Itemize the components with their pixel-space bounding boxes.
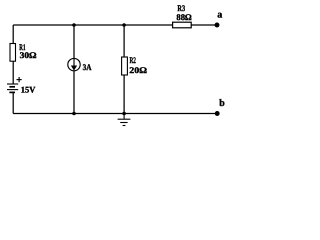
svg-text:88Ω: 88Ω — [176, 12, 192, 22]
wire top rail right of R3 — [191, 24, 217, 26]
wire left branch middle — [12, 61, 14, 84]
resistor R1 — [10, 44, 16, 62]
resistor R2 — [122, 57, 128, 75]
node a terminal dot — [215, 23, 220, 28]
svg-text:R2: R2 — [130, 55, 136, 65]
svg-text:20Ω: 20Ω — [129, 65, 147, 75]
junction bottom ground — [122, 112, 126, 116]
svg-text:b: b — [219, 98, 225, 109]
wire left branch lower — [12, 92, 14, 113]
wire R2 branch lower — [123, 75, 125, 114]
wire left branch upper — [12, 25, 14, 44]
ground — [118, 114, 131, 126]
wire current-source branch lower — [73, 71, 75, 114]
svg-text:3A: 3A — [83, 62, 93, 72]
node b terminal dot — [215, 111, 220, 116]
battery V1 15V — [7, 84, 18, 92]
junction top current-source — [72, 23, 76, 27]
battery plus sign — [17, 77, 22, 82]
junction top R2 — [122, 23, 126, 27]
junction bottom current-source — [72, 112, 76, 116]
resistor R3 — [173, 22, 192, 28]
svg-text:30Ω: 30Ω — [20, 50, 37, 60]
wire top rail left of R3 — [13, 24, 172, 26]
wire R2 branch upper — [123, 25, 125, 57]
svg-text:a: a — [217, 9, 222, 20]
current source I1 3A — [68, 58, 80, 70]
wire bottom rail — [13, 113, 217, 115]
svg-text:15V: 15V — [21, 84, 36, 94]
wire current-source branch upper — [73, 25, 75, 59]
